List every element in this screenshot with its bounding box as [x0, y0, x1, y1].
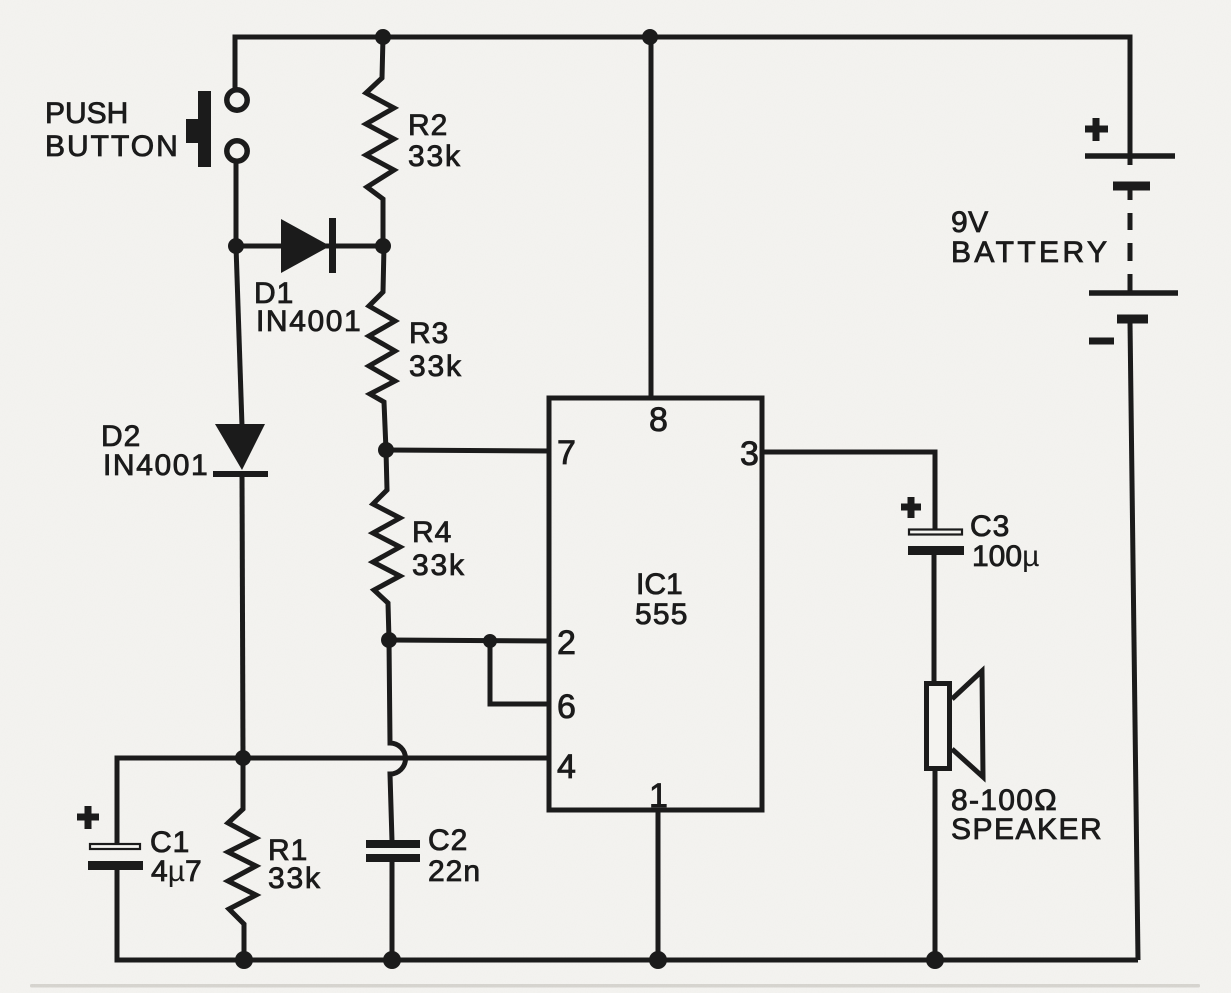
svg-text:4: 4 [557, 748, 576, 786]
label D2 IN4001 [101, 420, 209, 482]
label 8-100ohm SPEAKER [951, 784, 1103, 846]
diode D1 [281, 218, 336, 273]
op IC1 555 box [549, 398, 762, 810]
wire C2 to bottom rail [390, 858, 395, 960]
svg-text:R4: R4 [412, 516, 452, 549]
label 9V BATTERY [951, 206, 1110, 269]
node bottom rail / pin 1 junction [649, 951, 667, 969]
wire pin 1 [656, 810, 661, 960]
wire push button to D1 [234, 160, 239, 248]
diode D2 [213, 424, 268, 477]
svg-text:3: 3 [740, 435, 759, 473]
svg-text:2: 2 [557, 624, 576, 662]
svg-text:7: 7 [557, 434, 576, 472]
resistor R3 [369, 246, 395, 450]
wire D1 anode row [236, 244, 383, 249]
node bottom rail / speaker junction [926, 951, 944, 969]
wire top supply rail [235, 37, 1130, 156]
faint scanner streak at bottom edge [30, 984, 1200, 988]
node D1 cathode / R2-R3 junction [375, 238, 391, 254]
push button SW1 [186, 90, 247, 167]
svg-text:22n: 22n [428, 855, 481, 888]
svg-text:C3: C3 [970, 510, 1010, 543]
label R3 33k [409, 317, 463, 383]
svg-text:BATTERY: BATTERY [951, 236, 1110, 269]
svg-text:555: 555 [635, 598, 689, 631]
label PUSH BUTTON [45, 97, 180, 163]
wire C2 branch with hop over pin 4 wire [389, 640, 405, 841]
wire C3 to speaker [932, 555, 937, 682]
svg-text:C2: C2 [428, 824, 468, 857]
svg-text:IN4001: IN4001 [103, 449, 209, 482]
node top rail / pin 8 junction [642, 29, 658, 45]
wire speaker to bottom rail [933, 770, 938, 960]
label R4 33k [412, 516, 466, 582]
resistor R1 [228, 758, 256, 960]
wire left rail D1 to D2 [236, 246, 242, 426]
battery B1 9V [1085, 118, 1178, 341]
label C2 22n [428, 824, 481, 888]
label R1 33k [268, 834, 322, 895]
wire pin 8 [649, 37, 654, 398]
svg-text:PUSH: PUSH [45, 97, 128, 130]
svg-text:R2: R2 [408, 109, 448, 142]
wire battery negative to bottom rail [1130, 322, 1138, 960]
svg-text:4µ7: 4µ7 [151, 855, 202, 888]
svg-text:IN4001: IN4001 [256, 305, 362, 338]
wire pin 4 / mid rail [117, 758, 551, 846]
svg-text:33k: 33k [268, 862, 322, 895]
node R4 / pin 2 junction [381, 632, 397, 648]
label R2 33k [408, 109, 462, 173]
capacitor C2 [366, 840, 420, 862]
speaker LS1 [927, 671, 984, 777]
svg-text:SPEAKER: SPEAKER [951, 813, 1103, 846]
node top rail / R2 junction [375, 29, 391, 45]
node pin 2 / pin 6 jog junction [483, 634, 497, 648]
label D1 IN4001 [254, 277, 362, 338]
label C3 100u [970, 510, 1039, 573]
svg-text:9V: 9V [951, 206, 989, 239]
wire pin 7 [386, 450, 551, 451]
wire pin 3 to C3 [762, 452, 935, 529]
wire pin 6 jog [490, 641, 551, 704]
wire bottom ground rail [117, 869, 1138, 960]
wire pin 2 [389, 640, 551, 641]
capacitor C3 [901, 497, 964, 555]
svg-text:8: 8 [649, 401, 668, 439]
svg-text:100µ: 100µ [972, 540, 1039, 573]
svg-text:R3: R3 [409, 317, 449, 350]
resistor R2 [366, 37, 394, 246]
svg-text:BUTTON: BUTTON [45, 130, 180, 163]
capacitor C1 [77, 806, 143, 870]
node D1 anode junction [228, 238, 244, 254]
svg-text:6: 6 [557, 688, 576, 726]
label C1 4u7 [150, 826, 202, 888]
resistor R4 [373, 450, 400, 640]
svg-text:33k: 33k [412, 549, 466, 582]
svg-text:1: 1 [649, 777, 668, 815]
svg-text:IC1: IC1 [636, 568, 683, 601]
node bottom rail / R1 junction [235, 951, 253, 969]
svg-text:33k: 33k [409, 350, 463, 383]
node R3-R4 / pin 7 junction [378, 442, 394, 458]
svg-text:33k: 33k [408, 140, 462, 173]
node mid rail / R1 junction [235, 750, 251, 766]
wire D2 to mid rail [242, 474, 243, 758]
node bottom rail / C2 junction [383, 951, 401, 969]
label IC1 555 [635, 568, 689, 631]
